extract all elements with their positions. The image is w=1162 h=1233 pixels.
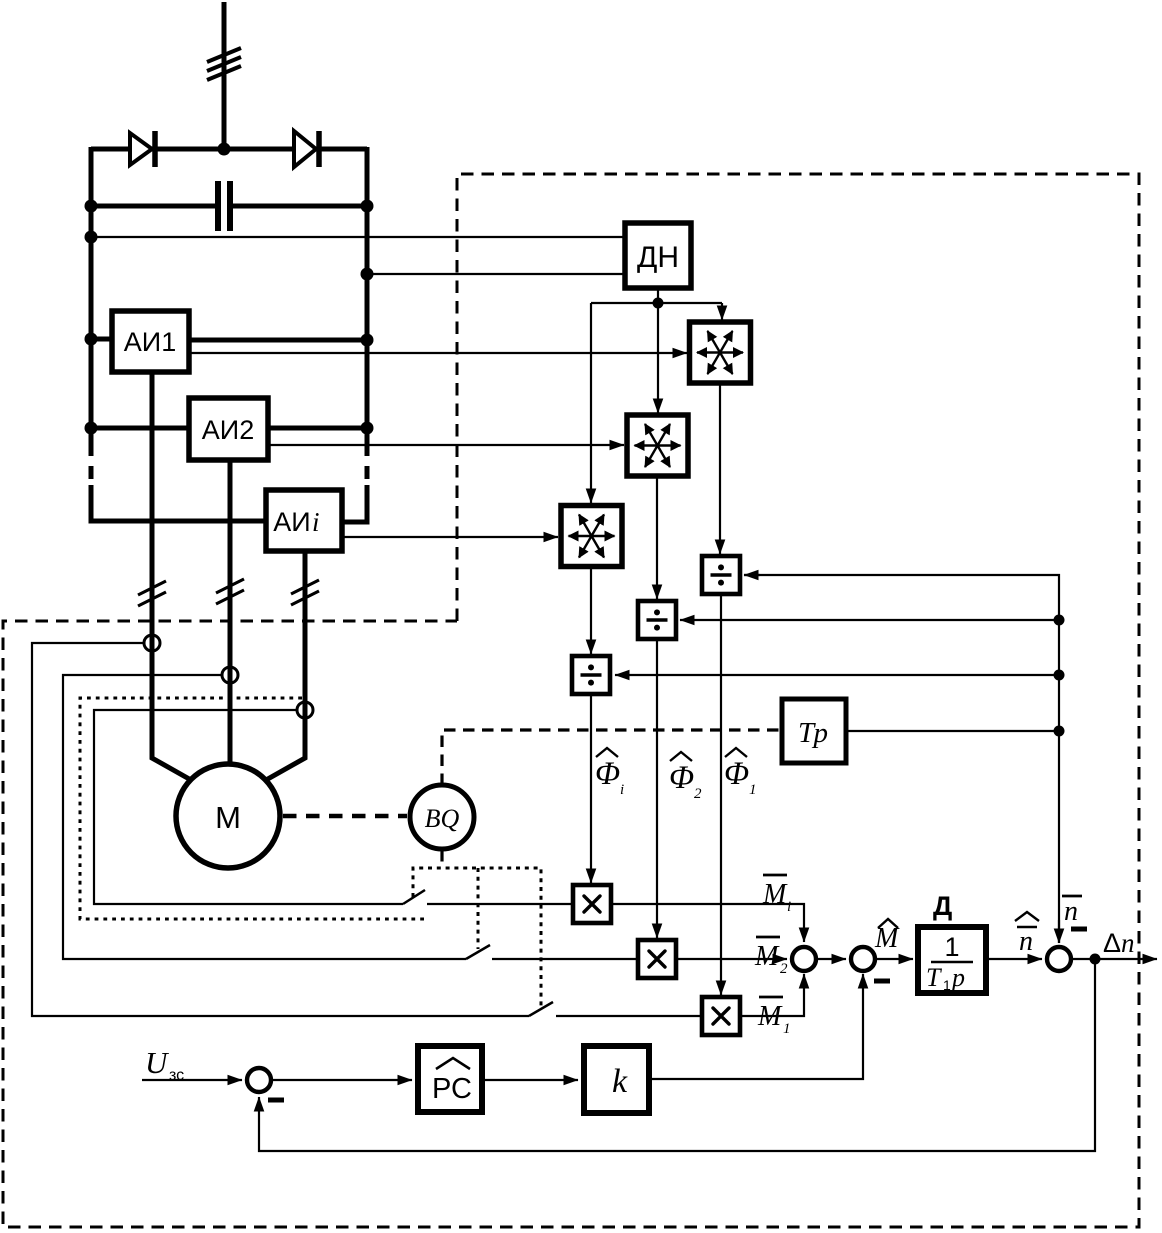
- current pickup node phase 1: [144, 635, 160, 651]
- wire Mi to multiplier: [427, 903, 573, 905]
- wire RS to k: [482, 1079, 578, 1081]
- label n estimate: [1015, 912, 1039, 957]
- svg-text:1: 1: [944, 932, 959, 962]
- wire riser to divider 3: [615, 674, 1059, 676]
- svg-text:Д: Д: [933, 891, 952, 921]
- wire motor phase 1: [152, 372, 191, 780]
- svg-text:РС: РС: [432, 1073, 472, 1105]
- svg-text:ДН: ДН: [637, 241, 679, 274]
- integrator block D: [918, 891, 986, 993]
- node AI1 left: [85, 333, 98, 346]
- gain block k: [584, 1046, 649, 1113]
- arrow into divider 1: [744, 574, 760, 576]
- speed comparator: [1047, 947, 1071, 971]
- wire motor phase 2: [228, 460, 233, 766]
- svg-text:i: i: [620, 782, 624, 798]
- dotted switch control harness: [413, 868, 541, 1007]
- wire flux Fi down: [590, 694, 592, 883]
- node riser d2: [1054, 615, 1065, 626]
- wire riser to divider 2: [680, 619, 1059, 621]
- wire M2 to multiplier: [492, 958, 638, 960]
- current pickup node phase 3: [297, 702, 313, 718]
- wire left bus dashed continuation: [89, 443, 94, 487]
- label M hat: [874, 919, 900, 954]
- wire flux F1 down: [720, 594, 722, 995]
- shaft dashed link: [283, 814, 407, 819]
- switch S1 blade: [403, 890, 425, 904]
- svg-text:2: 2: [694, 786, 702, 802]
- wire supply feeder: [222, 2, 227, 152]
- svg-text:АИ1: АИ1: [124, 327, 176, 357]
- speed error comparator: [247, 1068, 271, 1092]
- wire AIi signal output: [342, 536, 558, 538]
- wire delta n output: [1071, 958, 1157, 960]
- label M1: [757, 997, 791, 1037]
- wire AI2 left feed: [91, 426, 189, 431]
- comparator torque: [851, 947, 875, 971]
- svg-text:АИ: АИ: [273, 507, 310, 537]
- wire n feedback riser: [744, 575, 1059, 943]
- inverter AI1: [112, 311, 189, 372]
- svg-text:М: М: [215, 800, 241, 835]
- slash marks phase 3: [291, 580, 319, 605]
- svg-text:n: n: [1121, 928, 1135, 958]
- wire U2 to divider 2: [656, 476, 658, 599]
- wire current signal M2: [63, 675, 466, 959]
- voltage sensor DN: [625, 223, 691, 288]
- node output tap: [1090, 954, 1101, 965]
- svg-text:T: T: [926, 963, 942, 992]
- wire D to speed comparator: [986, 958, 1042, 960]
- wire AI1 left feed: [91, 337, 112, 342]
- svg-text:Φ: Φ: [669, 760, 694, 796]
- svg-text:АИ2: АИ2: [202, 415, 254, 445]
- svg-text:U: U: [145, 1045, 170, 1080]
- wire motor phase 3: [266, 551, 305, 780]
- summing junction torque: [792, 947, 816, 971]
- svg-text:M: M: [757, 1001, 783, 1032]
- label Mi: [762, 875, 791, 915]
- wire right bus lower solid: [342, 485, 367, 522]
- wire Uzs input: [142, 1079, 242, 1081]
- node AI2 right: [361, 422, 374, 435]
- node AI1 right: [361, 334, 374, 347]
- svg-text:k: k: [612, 1063, 628, 1100]
- multiplier x M2: [638, 940, 676, 978]
- wire to speed regulator: [271, 1079, 412, 1081]
- label flux F1: [724, 748, 757, 798]
- svg-text:Δ: Δ: [1103, 928, 1121, 958]
- multiplier x Mi: [573, 885, 611, 923]
- svg-text:M: M: [762, 879, 788, 910]
- speed regulator RS: [418, 1046, 482, 1112]
- svg-text:Φ: Φ: [724, 756, 749, 792]
- wire AI2 signal output: [268, 444, 624, 446]
- wire to voltage sensor upper: [91, 236, 625, 238]
- wire filter rail left: [91, 204, 215, 209]
- wire U1 to divider 1: [719, 383, 721, 554]
- wire U3 to divider 3: [590, 566, 592, 654]
- wire M1 to multiplier: [556, 1015, 702, 1017]
- node lower sense tap: [361, 268, 374, 281]
- wire M1 to summer: [740, 974, 804, 1016]
- wire speed feedback loop: [259, 959, 1095, 1151]
- three-phase slash marks on feeder: [207, 48, 241, 80]
- wire rectifier top rail: [91, 147, 367, 152]
- divider block 1: [702, 556, 740, 594]
- minus at speed comparator: [1071, 927, 1087, 932]
- wire DN to multiplier U3: [590, 303, 592, 503]
- svg-text:1: 1: [749, 782, 757, 798]
- speed sensor BQ: [410, 785, 474, 849]
- svg-text:i: i: [787, 899, 791, 915]
- motor M: [176, 764, 280, 868]
- diode VD1: [130, 131, 155, 167]
- wire current signal M1: [32, 643, 529, 1016]
- svg-text:BQ: BQ: [425, 804, 460, 833]
- svg-text:M: M: [874, 923, 900, 954]
- capacitor C filter: [218, 181, 230, 231]
- node AI2 left: [85, 422, 98, 435]
- dashed link BQ to Tr: [442, 730, 780, 785]
- label flux F2: [669, 752, 702, 802]
- svg-text:M: M: [754, 941, 780, 972]
- wire Mi to summer: [611, 904, 804, 942]
- switch S2 blade: [466, 945, 490, 959]
- multiplier unit U3: [561, 506, 622, 567]
- wire comparator to D block: [875, 958, 913, 960]
- label Uzs: [145, 1045, 184, 1084]
- slash marks phase 2: [216, 579, 244, 604]
- svg-text:Φ: Φ: [595, 756, 620, 792]
- wire right bus dashed continuation: [365, 443, 370, 487]
- arrow n into comparator: [1058, 920, 1060, 943]
- inverter AI2: [189, 398, 268, 460]
- node DN rail: [653, 298, 664, 309]
- node left cap: [85, 200, 98, 213]
- svg-text:i: i: [312, 507, 320, 537]
- multiplier unit U2: [627, 415, 688, 476]
- minus at speed error: [268, 1098, 284, 1103]
- node right cap: [361, 200, 374, 213]
- inverter AIi: [266, 490, 342, 551]
- wire to voltage sensor lower: [367, 273, 625, 275]
- label M2: [754, 937, 788, 977]
- tachogenerator block Tr: [782, 699, 846, 763]
- wire left DC bus: [89, 147, 94, 443]
- wire DN to multiplier U1: [721, 303, 723, 320]
- dashed link BQ to switch control: [440, 850, 443, 868]
- slash marks phase 1: [138, 581, 166, 606]
- multiplier unit U1: [690, 322, 751, 383]
- wire Tr output: [846, 730, 1059, 732]
- diode VD2: [294, 131, 319, 167]
- wire flux F2 down: [656, 639, 658, 938]
- node upper sense tap: [85, 231, 98, 244]
- node riser d3: [1054, 670, 1065, 681]
- minus at comparator: [874, 979, 890, 984]
- label n measured: [1062, 896, 1082, 927]
- divider block 2: [638, 601, 676, 639]
- svg-text:p: p: [950, 963, 965, 992]
- svg-text:n: n: [1019, 926, 1033, 957]
- wire DN distribution rail: [591, 302, 722, 304]
- divider block 3: [572, 656, 610, 694]
- svg-text:1: 1: [783, 1021, 791, 1037]
- wire current signal Mi: [94, 710, 403, 904]
- svg-text:2: 2: [780, 961, 788, 977]
- multiplier x M1: [702, 997, 740, 1035]
- label flux Fi: [595, 748, 624, 798]
- switch S3 blade: [529, 1002, 553, 1016]
- wire AI1 right feed: [189, 338, 367, 343]
- wire DN output stem: [657, 288, 659, 303]
- svg-text:n: n: [1064, 896, 1078, 927]
- wire M2 to summer: [676, 958, 787, 960]
- wire left bus lower solid: [91, 485, 266, 521]
- wire AI1 signal output: [189, 352, 687, 354]
- svg-text:1: 1: [943, 977, 951, 993]
- wire k to torque comparator: [649, 974, 863, 1079]
- svg-text:Тр: Тр: [798, 717, 828, 749]
- node riser Tr: [1054, 726, 1065, 737]
- wire right DC bus: [365, 147, 370, 443]
- wire AI2 right feed: [268, 426, 367, 431]
- wire summer to comparator: [816, 958, 846, 960]
- wire filter rail right: [233, 204, 367, 209]
- node feeder junction: [218, 143, 231, 156]
- dotted measurement boundary: [80, 698, 426, 919]
- current pickup node phase 2: [222, 667, 238, 683]
- wire DN to multiplier U2: [657, 303, 659, 413]
- svg-text:зс: зс: [169, 1067, 184, 1084]
